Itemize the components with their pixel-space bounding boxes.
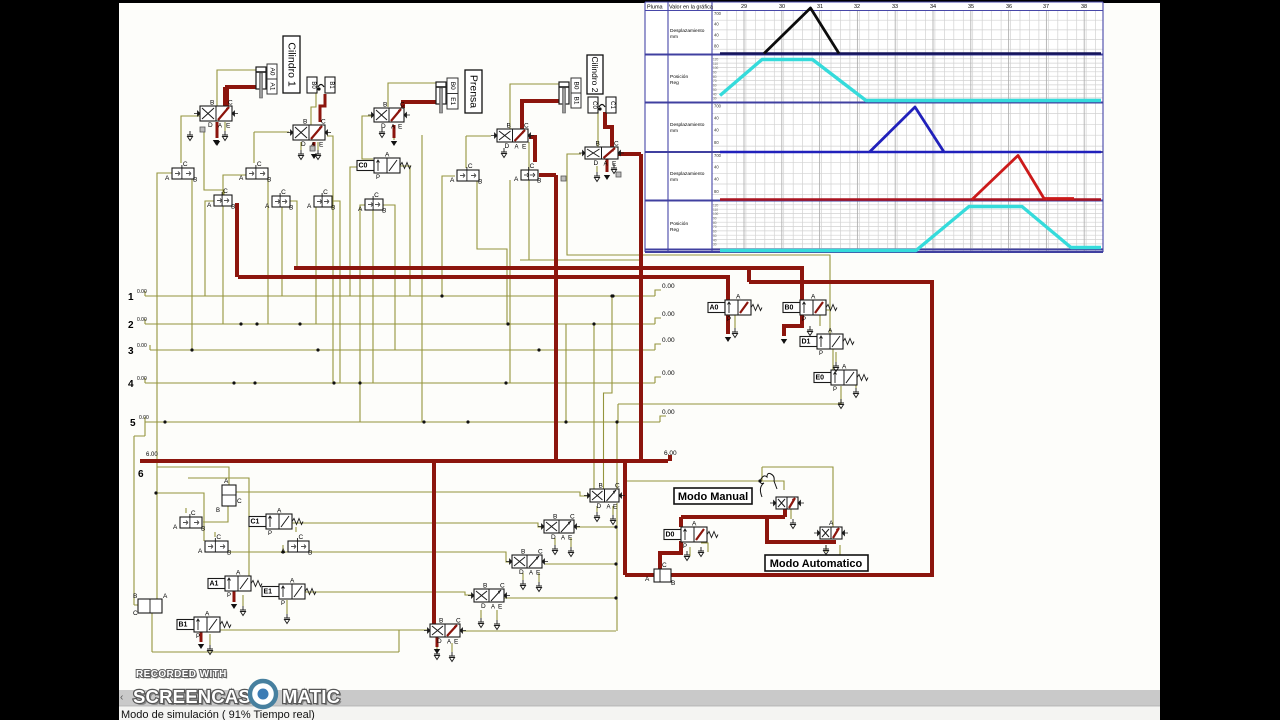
svg-text:40: 40 <box>714 22 719 27</box>
svg-text:E: E <box>536 570 541 577</box>
svg-text:C: C <box>500 583 505 590</box>
svg-text:E: E <box>522 144 527 151</box>
svg-text:B: B <box>537 178 541 185</box>
svg-text:P: P <box>268 531 272 537</box>
svg-text:A: A <box>529 571 533 577</box>
svg-text:110: 110 <box>713 62 718 66</box>
svg-text:Modo Automatico: Modo Automatico <box>770 558 863 570</box>
svg-text:D: D <box>481 603 486 610</box>
svg-text:A0: A0 <box>710 305 719 312</box>
svg-text:C: C <box>133 610 138 617</box>
svg-text:B: B <box>382 208 386 215</box>
svg-text:Cilindro 2: Cilindro 2 <box>590 57 600 93</box>
svg-text:mm: mm <box>670 178 678 183</box>
svg-text:A: A <box>358 206 363 213</box>
svg-text:MATIC: MATIC <box>282 686 340 707</box>
svg-text:A: A <box>224 478 229 485</box>
svg-text:29: 29 <box>741 4 747 10</box>
svg-text:A: A <box>450 177 455 184</box>
svg-text:Prensa: Prensa <box>468 75 480 108</box>
svg-text:A1: A1 <box>210 581 219 588</box>
svg-text:A: A <box>607 505 611 511</box>
svg-text:6: 6 <box>138 469 144 480</box>
svg-text:B0: B0 <box>310 81 316 89</box>
svg-text:C: C <box>298 534 303 541</box>
svg-text:0.00: 0.00 <box>662 370 675 377</box>
svg-text:E: E <box>612 161 617 168</box>
svg-text:80: 80 <box>714 44 719 49</box>
svg-text:Reg: Reg <box>670 227 679 233</box>
svg-text:30: 30 <box>713 243 717 247</box>
svg-text:C: C <box>530 163 535 170</box>
svg-text:30: 30 <box>713 97 717 101</box>
svg-text:E: E <box>498 604 503 611</box>
svg-text:B: B <box>193 177 197 184</box>
svg-text:A: A <box>163 593 168 600</box>
svg-text:B: B <box>383 102 387 109</box>
svg-text:A: A <box>736 294 741 301</box>
svg-text:SCREENCAST: SCREENCAST <box>133 686 263 707</box>
svg-text:A0: A0 <box>269 68 276 76</box>
svg-text:C: C <box>468 163 473 170</box>
svg-text:B: B <box>521 549 525 556</box>
svg-text:1: 1 <box>128 292 134 303</box>
svg-text:A: A <box>205 611 210 618</box>
svg-text:0.00: 0.00 <box>137 343 147 349</box>
svg-text:C0: C0 <box>359 163 368 170</box>
svg-text:P: P <box>683 544 687 550</box>
svg-text:B: B <box>671 580 675 587</box>
svg-text:40: 40 <box>714 115 719 120</box>
svg-text:700: 700 <box>714 104 722 109</box>
svg-text:C: C <box>614 141 619 148</box>
svg-text:C0: C0 <box>591 101 597 109</box>
svg-text:B: B <box>210 100 214 107</box>
svg-text:B: B <box>289 205 293 212</box>
svg-text:0.00: 0.00 <box>662 337 675 344</box>
svg-text:B: B <box>227 550 231 557</box>
svg-text:D: D <box>551 534 556 541</box>
svg-text:B: B <box>331 205 335 212</box>
svg-text:P: P <box>376 175 380 181</box>
svg-text:38: 38 <box>1081 4 1087 10</box>
svg-text:mm: mm <box>670 35 678 40</box>
svg-text:40: 40 <box>714 165 719 170</box>
svg-text:P: P <box>281 601 285 607</box>
svg-text:A: A <box>842 364 847 371</box>
svg-text:B: B <box>267 177 271 184</box>
svg-text:A: A <box>811 294 816 301</box>
svg-text:Desplazamiento: Desplazamiento <box>670 122 705 128</box>
svg-text:B: B <box>308 550 312 557</box>
svg-text:C: C <box>400 102 405 109</box>
svg-text:C: C <box>183 161 188 168</box>
svg-text:C: C <box>216 534 221 541</box>
svg-text:36: 36 <box>1006 4 1012 10</box>
svg-text:C: C <box>223 188 228 195</box>
svg-text:E: E <box>568 535 573 542</box>
svg-text:110: 110 <box>713 208 718 212</box>
svg-text:D: D <box>505 143 510 150</box>
svg-text:D: D <box>594 160 599 167</box>
svg-text:C: C <box>662 562 667 569</box>
svg-text:A: A <box>491 605 495 611</box>
svg-text:A: A <box>514 176 519 183</box>
svg-text:0.00: 0.00 <box>139 415 149 421</box>
svg-text:0.00: 0.00 <box>662 409 675 416</box>
svg-text:A: A <box>447 640 451 646</box>
svg-text:D1: D1 <box>802 339 811 346</box>
svg-text:30: 30 <box>779 4 785 10</box>
svg-text:A: A <box>385 152 390 159</box>
svg-text:B: B <box>231 204 235 211</box>
svg-text:C: C <box>191 510 196 517</box>
svg-text:A: A <box>828 328 833 335</box>
svg-text:0.00: 0.00 <box>137 376 147 382</box>
svg-text:37: 37 <box>1043 4 1049 10</box>
svg-text:0.00: 0.00 <box>137 289 147 295</box>
svg-text:E1: E1 <box>449 97 456 105</box>
svg-text:A: A <box>391 125 395 131</box>
svg-text:B: B <box>478 179 482 186</box>
svg-text:80: 80 <box>714 140 719 145</box>
svg-text:33: 33 <box>892 4 898 10</box>
svg-text:B: B <box>133 593 137 600</box>
svg-text:mm: mm <box>670 129 678 134</box>
svg-text:70: 70 <box>713 79 717 83</box>
svg-text:700: 700 <box>714 11 722 16</box>
svg-text:B: B <box>507 123 511 130</box>
svg-text:C: C <box>281 189 286 196</box>
svg-text:A: A <box>218 124 222 130</box>
svg-text:C1: C1 <box>251 519 260 526</box>
svg-text:D: D <box>301 141 306 148</box>
svg-text:B: B <box>483 583 487 590</box>
svg-text:40: 40 <box>714 177 719 182</box>
svg-text:Reg: Reg <box>670 80 679 86</box>
svg-text:‹: ‹ <box>120 692 123 703</box>
svg-text:B: B <box>596 141 600 148</box>
svg-text:C: C <box>237 498 242 505</box>
svg-text:E: E <box>454 639 459 646</box>
svg-text:A: A <box>604 162 608 168</box>
svg-text:E: E <box>226 123 231 130</box>
svg-text:90: 90 <box>713 71 717 75</box>
svg-text:D0: D0 <box>666 532 675 539</box>
svg-text:Desplazamiento: Desplazamiento <box>670 28 705 34</box>
svg-text:2: 2 <box>128 320 134 331</box>
svg-text:C: C <box>257 161 262 168</box>
svg-text:E: E <box>398 124 403 131</box>
svg-text:Cilindro 1: Cilindro 1 <box>286 42 298 87</box>
svg-text:5: 5 <box>130 418 136 429</box>
svg-text:Posición: Posición <box>670 74 688 80</box>
svg-text:Posición: Posición <box>670 221 688 227</box>
svg-text:C: C <box>570 514 575 521</box>
svg-text:B: B <box>216 508 220 514</box>
svg-text:A: A <box>207 202 212 209</box>
svg-text:35: 35 <box>968 4 974 10</box>
svg-text:A: A <box>281 548 286 555</box>
svg-text:E0: E0 <box>816 375 825 382</box>
svg-text:A: A <box>198 548 203 555</box>
svg-text:700: 700 <box>714 153 722 158</box>
svg-text:P: P <box>196 634 200 640</box>
svg-text:P: P <box>819 351 823 357</box>
svg-text:B0: B0 <box>573 82 580 90</box>
svg-text:E1: E1 <box>264 589 273 596</box>
svg-text:E: E <box>319 142 324 149</box>
svg-text:Valor en la gráfica: Valor en la gráfica <box>669 5 714 11</box>
svg-text:RECORDED WITH: RECORDED WITH <box>136 669 227 680</box>
svg-text:D: D <box>208 122 213 129</box>
svg-text:B1: B1 <box>573 97 580 105</box>
svg-text:70: 70 <box>713 225 717 229</box>
svg-text:Pluma: Pluma <box>647 5 664 11</box>
svg-text:C: C <box>321 119 326 126</box>
svg-text:31: 31 <box>817 4 823 10</box>
svg-text:A: A <box>277 508 282 515</box>
svg-text:Desplazamiento: Desplazamiento <box>670 171 705 177</box>
svg-text:A: A <box>645 576 650 583</box>
svg-text:6.00: 6.00 <box>146 452 158 458</box>
svg-text:D: D <box>597 503 602 510</box>
svg-text:P: P <box>802 317 806 323</box>
svg-text:4: 4 <box>128 379 134 390</box>
svg-text:A: A <box>236 570 241 577</box>
svg-text:B: B <box>201 526 205 533</box>
svg-text:A: A <box>265 203 270 210</box>
svg-text:90: 90 <box>713 217 717 221</box>
svg-text:32: 32 <box>854 4 860 10</box>
svg-text:B: B <box>553 514 557 521</box>
svg-text:D: D <box>519 569 524 576</box>
svg-text:Modo Manual: Modo Manual <box>678 491 748 503</box>
svg-text:D: D <box>437 638 442 645</box>
svg-text:C1: C1 <box>609 101 615 109</box>
svg-text:B0: B0 <box>785 305 794 312</box>
svg-text:34: 34 <box>930 4 936 10</box>
svg-text:P: P <box>227 593 231 599</box>
svg-text:6.00: 6.00 <box>664 450 677 457</box>
svg-text:40: 40 <box>714 33 719 38</box>
svg-text:A: A <box>561 536 565 542</box>
svg-text:P: P <box>833 387 837 393</box>
svg-text:C: C <box>456 618 461 625</box>
svg-text:C: C <box>538 549 543 556</box>
svg-text:C: C <box>323 189 328 196</box>
svg-text:B1: B1 <box>328 81 334 89</box>
svg-text:50: 50 <box>713 88 717 92</box>
svg-text:0.00: 0.00 <box>662 311 675 318</box>
svg-text:B: B <box>599 483 603 490</box>
svg-text:C: C <box>374 192 379 199</box>
svg-text:B: B <box>303 119 307 126</box>
svg-text:Modo de simulación ( 91% Tiemp: Modo de simulación ( 91% Tiempo real) <box>121 709 315 720</box>
svg-text:0.00: 0.00 <box>137 317 147 323</box>
svg-text:B: B <box>439 618 443 625</box>
svg-text:A: A <box>307 203 312 210</box>
svg-text:80: 80 <box>714 189 719 194</box>
svg-text:A: A <box>692 521 697 528</box>
svg-text:A: A <box>239 175 244 182</box>
svg-text:C: C <box>615 483 620 490</box>
svg-text:A: A <box>829 520 834 527</box>
svg-text:0.00: 0.00 <box>662 283 675 290</box>
svg-text:A: A <box>173 524 178 531</box>
svg-text:E: E <box>613 504 618 511</box>
svg-text:P: P <box>727 317 731 323</box>
svg-text:A: A <box>290 578 295 585</box>
svg-text:C: C <box>228 100 233 107</box>
svg-text:C: C <box>524 123 529 130</box>
svg-text:3: 3 <box>128 346 134 357</box>
svg-text:40: 40 <box>714 128 719 133</box>
svg-text:B0: B0 <box>449 82 456 90</box>
svg-text:A: A <box>515 145 519 151</box>
svg-text:B1: B1 <box>179 622 188 629</box>
svg-text:A: A <box>165 175 170 182</box>
svg-text:A1: A1 <box>269 83 276 91</box>
svg-text:50: 50 <box>713 234 717 238</box>
